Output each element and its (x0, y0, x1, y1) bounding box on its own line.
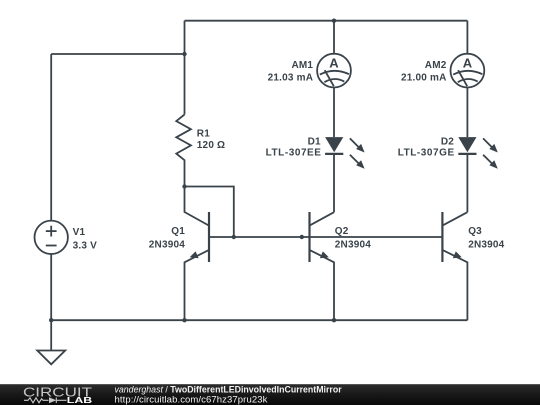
svg-text:D1: D1 (308, 136, 321, 147)
svg-text:D2: D2 (441, 136, 454, 147)
svg-text:A: A (463, 56, 473, 71)
ground (37, 351, 65, 365)
svg-text:21.00 mA: 21.00 mA (401, 73, 447, 84)
node top rail junction (332, 19, 336, 23)
wire left column (top rail to R1) (184, 21, 186, 115)
wire V1 upper lead (50, 54, 52, 221)
svg-text:LTL-307GE: LTL-307GE (398, 148, 455, 159)
svg-text:2N3904: 2N3904 (468, 240, 504, 251)
svg-text:vanderghast / TwoDifferentLEDi: vanderghast / TwoDifferentLEDinvolvedInC… (115, 385, 343, 395)
node tie to base rail (232, 235, 236, 239)
LED D2 (458, 137, 498, 169)
svg-text:2N3904: 2N3904 (335, 240, 371, 251)
node bottom rail Q2 (332, 318, 336, 322)
transistor Q3 (442, 212, 467, 320)
wire ground lead (50, 320, 52, 350)
svg-text:R1: R1 (197, 128, 210, 139)
transistor Q1 (185, 187, 210, 321)
ammeter AM1 (317, 54, 351, 88)
wire base rail (209, 236, 443, 238)
node bottom rail Q1 (182, 318, 186, 322)
wire D2 to Q3 collector (466, 154, 468, 212)
svg-text:V1: V1 (73, 227, 86, 238)
svg-text:3.3 V: 3.3 V (73, 241, 97, 252)
svg-text:http://circuitlab.com/c67hz37p: http://circuitlab.com/c67hz37pru23k (115, 394, 268, 405)
Q1 emitter arrow (190, 251, 199, 258)
svg-text:21.03 mA: 21.03 mA (268, 73, 314, 84)
svg-text:Q3: Q3 (468, 226, 482, 237)
wire AM2 to D2 (466, 88, 468, 138)
node left tee (182, 52, 186, 56)
node bottom rail V1 (49, 318, 53, 322)
Q3 emitter arrow (453, 251, 462, 258)
svg-text:LAB: LAB (67, 395, 92, 405)
CircuitLab logo resistor-diode glyph (24, 398, 67, 404)
wire V1 lower lead (50, 254, 52, 320)
wire AM1 to D1 (333, 88, 335, 138)
LED D1 (325, 137, 365, 169)
wire horizontal V1 top (51, 53, 184, 55)
node R1 bottom (182, 184, 186, 188)
svg-text:A: A (329, 56, 339, 71)
svg-text:2N3904: 2N3904 (149, 240, 185, 251)
ammeter AM2 (451, 54, 485, 88)
wire D1 to Q2 collector (333, 154, 335, 212)
svg-text:LTL-307EE: LTL-307EE (266, 148, 322, 159)
svg-text:120 Ω: 120 Ω (197, 140, 225, 151)
svg-text:AM2: AM2 (425, 60, 447, 71)
resistor R1 (176, 115, 191, 187)
wire bottom rail (51, 319, 467, 321)
svg-text:Q2: Q2 (335, 226, 349, 237)
wire AM2 top lead (466, 21, 468, 54)
wire collector-base tie loop (185, 187, 234, 238)
wire top rail (185, 20, 468, 22)
wire AM1 top lead (333, 21, 335, 54)
transistor Q2 (310, 212, 335, 320)
svg-text:AM1: AM1 (291, 60, 313, 71)
svg-text:Q1: Q1 (171, 226, 185, 237)
voltage source V1 (35, 221, 68, 254)
Q2 emitter arrow (320, 251, 329, 258)
node Q2 base (300, 235, 304, 239)
